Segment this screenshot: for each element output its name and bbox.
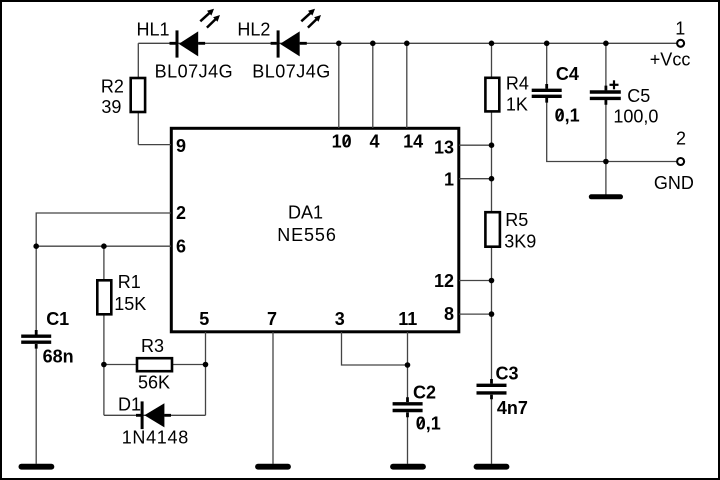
svg-text:1K: 1K [506,95,528,115]
svg-text:HL1: HL1 [137,20,170,40]
svg-text:C2: C2 [413,382,436,402]
svg-text:7: 7 [267,309,277,329]
svg-text:R5: R5 [505,210,528,230]
svg-text:3K9: 3K9 [504,231,536,251]
svg-text:4n7: 4n7 [497,398,528,418]
svg-text:1: 1 [444,170,454,190]
svg-text:0,1: 0,1 [555,105,580,125]
svg-text:GND: GND [654,173,694,193]
svg-text:15K: 15K [114,294,146,314]
svg-text:10: 10 [332,132,352,152]
svg-text:3: 3 [335,309,345,329]
svg-text:11: 11 [398,309,417,329]
svg-text:14: 14 [403,132,423,152]
svg-text:56K: 56K [138,372,170,392]
svg-text:C3: C3 [496,364,519,384]
svg-text:9: 9 [176,136,186,156]
svg-text:R4: R4 [506,74,529,94]
svg-text:39: 39 [101,97,121,117]
svg-text:DA1: DA1 [288,202,323,222]
svg-text:6: 6 [176,237,186,257]
svg-text:0,1: 0,1 [416,413,441,433]
svg-text:NE556: NE556 [277,225,337,245]
svg-text:68n: 68n [43,346,74,366]
svg-text:R1: R1 [118,272,141,292]
svg-text:1N4148: 1N4148 [122,428,189,448]
svg-text:BL07J4G: BL07J4G [155,62,234,82]
svg-text:D1: D1 [118,394,141,414]
svg-text:2: 2 [676,129,686,149]
svg-text:2: 2 [176,203,186,223]
svg-text:+Vcc: +Vcc [650,50,691,70]
svg-text:C4: C4 [556,64,579,84]
svg-text:C1: C1 [46,309,69,329]
svg-text:1: 1 [675,18,685,38]
svg-text:R3: R3 [141,336,164,356]
svg-text:R2: R2 [101,77,124,97]
svg-text:5: 5 [199,309,209,329]
svg-text:12: 12 [434,271,454,291]
svg-text:100,0: 100,0 [613,107,658,127]
svg-text:4: 4 [370,132,380,152]
svg-text:C5: C5 [627,86,650,106]
svg-text:BL07J4G: BL07J4G [252,62,331,82]
svg-text:8: 8 [444,304,454,324]
svg-text:13: 13 [434,137,454,157]
svg-text:HL2: HL2 [237,20,270,40]
